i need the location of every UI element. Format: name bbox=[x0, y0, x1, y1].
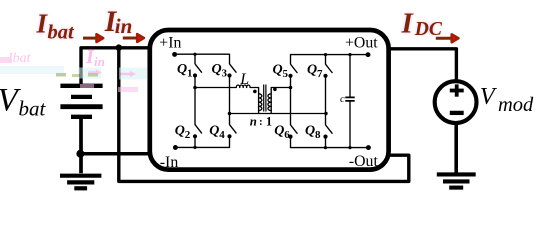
battery V_bat plates bbox=[60, 86, 102, 117]
terminal dot +In rail bbox=[172, 52, 177, 57]
label Q5 bbox=[273, 62, 289, 80]
red arrow I_in bbox=[123, 34, 144, 42]
svg-text:+Out: +Out bbox=[345, 34, 378, 51]
svg-text:+In: +In bbox=[159, 35, 181, 52]
V_mod plus sign bbox=[450, 84, 464, 96]
secondary winding bumps bbox=[268, 94, 271, 111]
svg-text:1: 1 bbox=[187, 68, 193, 80]
switch Q4 blade bbox=[230, 125, 237, 134]
junction dot legA mid bbox=[193, 86, 197, 90]
switch Q3 bottom terminal dot bbox=[227, 73, 231, 77]
capacitor c top lead bbox=[349, 55, 351, 98]
wire Vmod to ground bbox=[454, 124, 458, 173]
svg-text:I: I bbox=[401, 7, 415, 39]
switch Q6 bottom terminal dot bbox=[288, 135, 292, 139]
terminal dot +Out rail bbox=[366, 52, 371, 57]
ghost artifacts (faint) bbox=[0, 46, 147, 92]
svg-text:in: in bbox=[94, 54, 105, 69]
leg C mid wire bbox=[290, 76, 292, 125]
label Q2 bbox=[175, 123, 191, 141]
svg-text:Q: Q bbox=[307, 62, 317, 77]
primary winding bumps bbox=[259, 94, 262, 111]
switch Q2 blade bbox=[195, 125, 202, 134]
svg-text:8: 8 bbox=[315, 129, 321, 141]
label Q3 bbox=[212, 62, 228, 80]
wire battery top to box +In bbox=[81, 48, 151, 86]
svg-text:4: 4 bbox=[219, 129, 225, 141]
ground (right) bbox=[437, 174, 476, 187]
secondary top rail bbox=[291, 55, 369, 65]
switch Q3 blade bbox=[230, 64, 237, 73]
svg-text:Q: Q bbox=[273, 62, 283, 77]
switch Q1 bottom terminal dot bbox=[193, 73, 197, 77]
svg-text:7: 7 bbox=[317, 68, 323, 80]
junction dot Q1 top bbox=[193, 53, 196, 56]
svg-text:3: 3 bbox=[222, 68, 228, 80]
V_mod minus sign bbox=[450, 111, 464, 115]
label Q4 bbox=[209, 123, 225, 141]
label Q6 bbox=[274, 123, 290, 141]
label Q1 bbox=[177, 62, 193, 80]
svg-text:in: in bbox=[115, 14, 133, 38]
transformer core bbox=[264, 85, 266, 112]
red arrow I_bat bbox=[83, 34, 103, 42]
converter box outline bbox=[150, 30, 389, 170]
svg-text:Q: Q bbox=[212, 62, 222, 77]
svg-text::: : bbox=[259, 116, 263, 128]
label V_mod bbox=[480, 83, 534, 116]
switch Q7 blade bbox=[326, 64, 333, 73]
node: input junction bbox=[116, 44, 123, 51]
switch Q2 stub bbox=[194, 136, 196, 147]
switch Q8 stub bbox=[325, 137, 327, 148]
switch Q4 bottom terminal dot bbox=[227, 134, 231, 138]
svg-text:Q: Q bbox=[177, 62, 187, 77]
svg-text:DC: DC bbox=[414, 19, 443, 40]
pink halo ghosts around current labels bbox=[36, 6, 443, 43]
svg-text:Q: Q bbox=[209, 123, 219, 138]
ground (left) bbox=[60, 176, 101, 189]
node: battery negative junction bbox=[76, 150, 84, 158]
svg-text:Q: Q bbox=[175, 123, 185, 138]
switch Q2 bottom terminal dot bbox=[193, 134, 197, 138]
svg-text:-Out: -Out bbox=[349, 153, 379, 170]
switch Q1 blade bbox=[195, 64, 202, 73]
switch Q7 bottom terminal dot bbox=[323, 74, 327, 78]
switch Q1 stub bbox=[194, 54, 196, 64]
wire wrap-around from input node to -Out bbox=[119, 46, 409, 181]
svg-text:bat: bat bbox=[48, 21, 76, 43]
secondary bottom rail bbox=[291, 137, 369, 148]
switch Q8 bottom terminal dot bbox=[323, 135, 327, 139]
svg-text:6: 6 bbox=[284, 129, 290, 141]
switch Q5 bottom terminal dot bbox=[288, 74, 292, 78]
svg-text:c: c bbox=[340, 94, 345, 105]
svg-text:n: n bbox=[250, 114, 257, 128]
svg-text:Q: Q bbox=[305, 123, 315, 138]
wire junction to ground bbox=[79, 154, 83, 174]
voltage source V_mod circle bbox=[435, 81, 477, 123]
label I_bat bbox=[36, 8, 76, 43]
switch Q6 blade bbox=[291, 125, 298, 134]
svg-text:-In: -In bbox=[160, 154, 179, 171]
secondary winding and top wire bbox=[271, 88, 290, 114]
junction dot cap bottom bbox=[348, 146, 351, 149]
capacitor c bottom lead bbox=[349, 101, 351, 148]
wire battery bottom to junction bbox=[79, 117, 83, 154]
svg-text:bat: bat bbox=[19, 96, 47, 120]
switch Q5 blade bbox=[291, 64, 298, 73]
leg A mid wire bbox=[194, 76, 196, 125]
label Q8 bbox=[305, 123, 321, 141]
svg-text:Q: Q bbox=[274, 123, 284, 138]
svg-text:L: L bbox=[239, 71, 249, 88]
terminal dot -Out rail bbox=[366, 145, 371, 150]
red arrow I_DC bbox=[436, 34, 459, 42]
junction dot Q2 bottom bbox=[193, 146, 196, 149]
primary bottom rail bbox=[175, 136, 229, 147]
primary top rail bbox=[175, 54, 230, 64]
switch Q8 blade bbox=[326, 125, 333, 134]
transformer primary phase dot bbox=[253, 90, 257, 94]
svg-text:5: 5 bbox=[283, 68, 289, 80]
svg-text:mod: mod bbox=[498, 94, 534, 116]
label I_in bbox=[104, 6, 133, 38]
leg D mid wire bbox=[325, 76, 327, 125]
svg-text:2: 2 bbox=[185, 129, 191, 141]
label I_DC bbox=[401, 7, 443, 40]
svg-text:V: V bbox=[480, 83, 498, 110]
terminal dot -In rail bbox=[173, 145, 178, 150]
capacitor c plates bbox=[345, 97, 354, 101]
label Q7 bbox=[307, 62, 323, 80]
label n : 1 bbox=[250, 114, 272, 128]
leg B mid wire bbox=[229, 76, 231, 125]
junction dot legB bottom wire bbox=[228, 112, 232, 116]
junction dot Q7 top bbox=[324, 53, 327, 56]
transformer secondary phase dot bbox=[273, 88, 277, 92]
label V_bat bbox=[0, 83, 47, 121]
junction dot Q8 bottom bbox=[324, 146, 327, 149]
svg-text:1: 1 bbox=[266, 114, 272, 128]
wire box +Out to Vmod bbox=[388, 49, 457, 80]
transformer bottom wire bbox=[230, 113, 327, 115]
junction dot legC top wire bbox=[289, 86, 293, 90]
junction dot legD bottom wire bbox=[324, 112, 327, 115]
junction dot cap top bbox=[348, 53, 351, 56]
switch Q7 stub bbox=[325, 55, 327, 65]
wire junction to box -In bbox=[80, 152, 151, 156]
wire legA mid to inductor and primary winding bbox=[195, 85, 259, 114]
